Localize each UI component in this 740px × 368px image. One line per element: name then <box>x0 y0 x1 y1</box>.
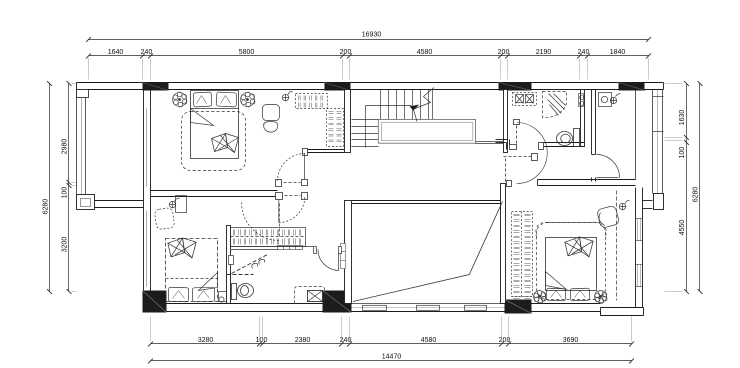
wall east master bedroom <box>636 188 643 308</box>
wall mid bedrooms <box>151 191 278 197</box>
stairwell rail east continuation <box>476 142 504 144</box>
pillows bedroom2 <box>168 287 214 302</box>
bay window corner block <box>654 194 664 210</box>
cabinet foyer <box>599 93 612 107</box>
pillows bedroom1 <box>193 92 237 107</box>
window west bedroom2 <box>146 211 148 287</box>
wall laundry west <box>504 90 508 153</box>
stair treads lower flight <box>352 120 379 147</box>
wardrobe bedroom1 L-shaped <box>296 94 344 147</box>
stair flight rail <box>366 106 412 148</box>
svg-text:3280: 3280 <box>198 337 214 344</box>
svg-text:4580: 4580 <box>421 337 437 344</box>
balcony top corner block <box>77 90 89 98</box>
dimension chain right <box>684 81 689 294</box>
partition line foyer <box>635 91 637 180</box>
bay window east top <box>653 90 663 194</box>
wall top exterior <box>77 83 664 90</box>
svg-text:4550: 4550 <box>679 220 686 236</box>
bed bedroom1 frame <box>191 91 239 159</box>
svg-text:6280: 6280 <box>42 199 49 215</box>
rug bedroom1 dashed <box>182 112 246 171</box>
window west bedroom1 <box>146 109 148 187</box>
svg-text:2380: 2380 <box>295 337 311 344</box>
stair risers <box>381 90 433 120</box>
wall void north <box>352 201 506 204</box>
wardrobe master dashed <box>512 212 533 298</box>
door jambs vestibule <box>276 149 308 200</box>
closet band hallway <box>231 228 306 247</box>
plant bedroom1 right <box>241 92 256 107</box>
svg-text:3200: 3200 <box>61 237 68 253</box>
toilet bathroom1 <box>557 129 580 147</box>
lamp symbol bedroom2 <box>169 198 179 208</box>
blanket fold bedroom2 <box>166 273 218 291</box>
dimension chain top <box>86 54 651 59</box>
pier bottom-2 <box>323 291 352 313</box>
door leaf bedroom2 dashed <box>285 195 301 197</box>
wall bathroom2 west <box>227 226 231 304</box>
door jambs bathroom2 <box>314 247 342 254</box>
bay window mullion ticks <box>653 97 664 132</box>
pier bottom-1 <box>143 291 167 313</box>
quilt decoration master <box>565 237 593 257</box>
pier top-2 <box>325 83 351 91</box>
nightstand bedroom2 <box>219 292 227 303</box>
quilt decoration bedroom2 <box>168 238 196 258</box>
svg-text:1840: 1840 <box>610 49 626 56</box>
wall bathroom1 south-west corner <box>496 140 517 150</box>
wall south master bedroom <box>532 303 601 305</box>
wall south-east step <box>601 308 644 316</box>
wall dashed hall-void side <box>505 159 507 183</box>
door jamb bathroom1 <box>539 143 544 150</box>
door master-suite jamb top <box>514 120 520 125</box>
svg-text:2190: 2190 <box>536 49 552 56</box>
svg-text:1640: 1640 <box>108 49 124 56</box>
quilt decoration bedroom1 <box>212 134 239 153</box>
bed bedroom2 frame <box>166 239 218 302</box>
pier top-3 <box>499 83 532 91</box>
svg-text:100: 100 <box>61 187 68 199</box>
desk bedroom2 <box>154 196 186 230</box>
bed master frame <box>546 238 597 291</box>
wall bedroom1 east <box>345 90 351 153</box>
pier top-1 <box>143 83 169 91</box>
door master-suite leaf dashed <box>516 126 518 149</box>
dimension chain bottom <box>148 342 634 347</box>
wall connector bay to master <box>643 201 653 209</box>
towel rail diagonal bathroom2 <box>232 255 268 274</box>
dimension total left 6280 <box>47 81 52 294</box>
svg-text:5800: 5800 <box>239 49 255 56</box>
stair direction arrow <box>414 88 435 122</box>
void diagonal lines <box>353 202 503 302</box>
armchair master <box>596 205 619 228</box>
toilet bathroom2 <box>232 284 254 300</box>
window void west wall <box>341 244 346 269</box>
svg-text:200: 200 <box>498 49 510 56</box>
headboard master dashed <box>536 223 606 238</box>
pier top-4 <box>619 83 645 91</box>
dimension chain left <box>67 81 72 294</box>
svg-text:14470: 14470 <box>382 354 402 361</box>
wall vestibule north <box>306 150 345 153</box>
door arc closet <box>242 203 280 241</box>
balcony wall bottom <box>95 201 144 208</box>
svg-text:4580: 4580 <box>417 49 433 56</box>
closet rail hallway <box>278 246 303 250</box>
plant master right <box>595 291 608 304</box>
dimension total bottom 14470 <box>148 359 634 364</box>
ceiling symbol foyer <box>610 94 620 104</box>
wall foyer west <box>592 90 596 182</box>
extension lines <box>72 59 683 342</box>
door master jamb west <box>507 181 512 187</box>
pier bottom-3 <box>505 300 532 314</box>
wall bathroom1 east <box>581 90 585 147</box>
balcony corner block <box>77 195 95 210</box>
blanket fold bedroom1 <box>191 109 239 126</box>
door leaf bedroom1 dashed <box>284 182 301 184</box>
plant master left <box>534 291 547 304</box>
wall bathroom2 north <box>231 247 314 250</box>
wall west exterior <box>144 90 151 304</box>
dimension total right 6280 <box>698 81 703 294</box>
opening hall dashed <box>504 156 532 158</box>
shower bathroom1 <box>543 92 567 118</box>
balcony window left <box>77 91 86 195</box>
wall master north <box>538 180 636 186</box>
svg-text:6280: 6280 <box>693 187 700 203</box>
wall void east <box>501 184 506 304</box>
door arc bathroom2 <box>318 250 339 271</box>
window east master 2 <box>636 265 643 287</box>
svg-text:240: 240 <box>578 49 590 56</box>
wall bottom exterior west part <box>143 304 601 312</box>
window east master 1 <box>636 219 643 241</box>
door arc foyer <box>597 155 620 178</box>
curtain dashed master <box>616 191 618 301</box>
door master-suite swing arc <box>517 123 548 184</box>
svg-text:200: 200 <box>340 49 352 56</box>
table chair bedroom1 <box>263 105 280 133</box>
opening hall jamb east <box>532 154 538 161</box>
svg-text:240: 240 <box>141 49 153 56</box>
svg-text:1630: 1630 <box>679 110 686 126</box>
wall void west <box>345 201 352 304</box>
svg-text:3690: 3690 <box>563 337 579 344</box>
dimension total top 16930 <box>86 37 651 42</box>
svg-text:16930: 16930 <box>362 32 382 39</box>
washbasin bathroom1 <box>579 94 584 107</box>
svg-text:100: 100 <box>679 147 686 159</box>
door arc bedroom2 <box>279 197 305 223</box>
laundry cabinet dashed <box>513 93 537 106</box>
vanity dashed bathroom2 <box>227 274 254 276</box>
plant bedroom1 left <box>173 92 188 107</box>
svg-text:2980: 2980 <box>61 139 68 155</box>
ceiling fan master <box>619 200 629 210</box>
pillows master <box>546 288 589 301</box>
wall bathroom1 south <box>542 143 585 147</box>
door arc bedroom1 <box>278 154 306 181</box>
jamb bathroom2 west wall <box>229 256 234 265</box>
window void south sill <box>352 304 505 311</box>
floor drain shower <box>295 287 325 304</box>
stairwell railing <box>378 119 475 143</box>
svg-text:100: 100 <box>256 337 268 344</box>
ceiling symbol bedroom1 <box>282 91 292 101</box>
rug master dashed <box>537 223 606 300</box>
blanket fold master <box>546 272 567 290</box>
